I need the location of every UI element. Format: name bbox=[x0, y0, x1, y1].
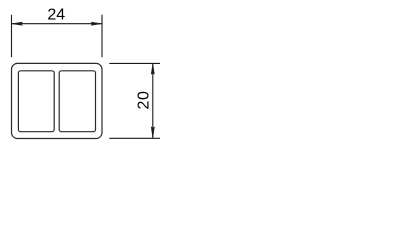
svg-text:20: 20 bbox=[136, 91, 153, 110]
svg-text:24: 24 bbox=[47, 7, 65, 24]
